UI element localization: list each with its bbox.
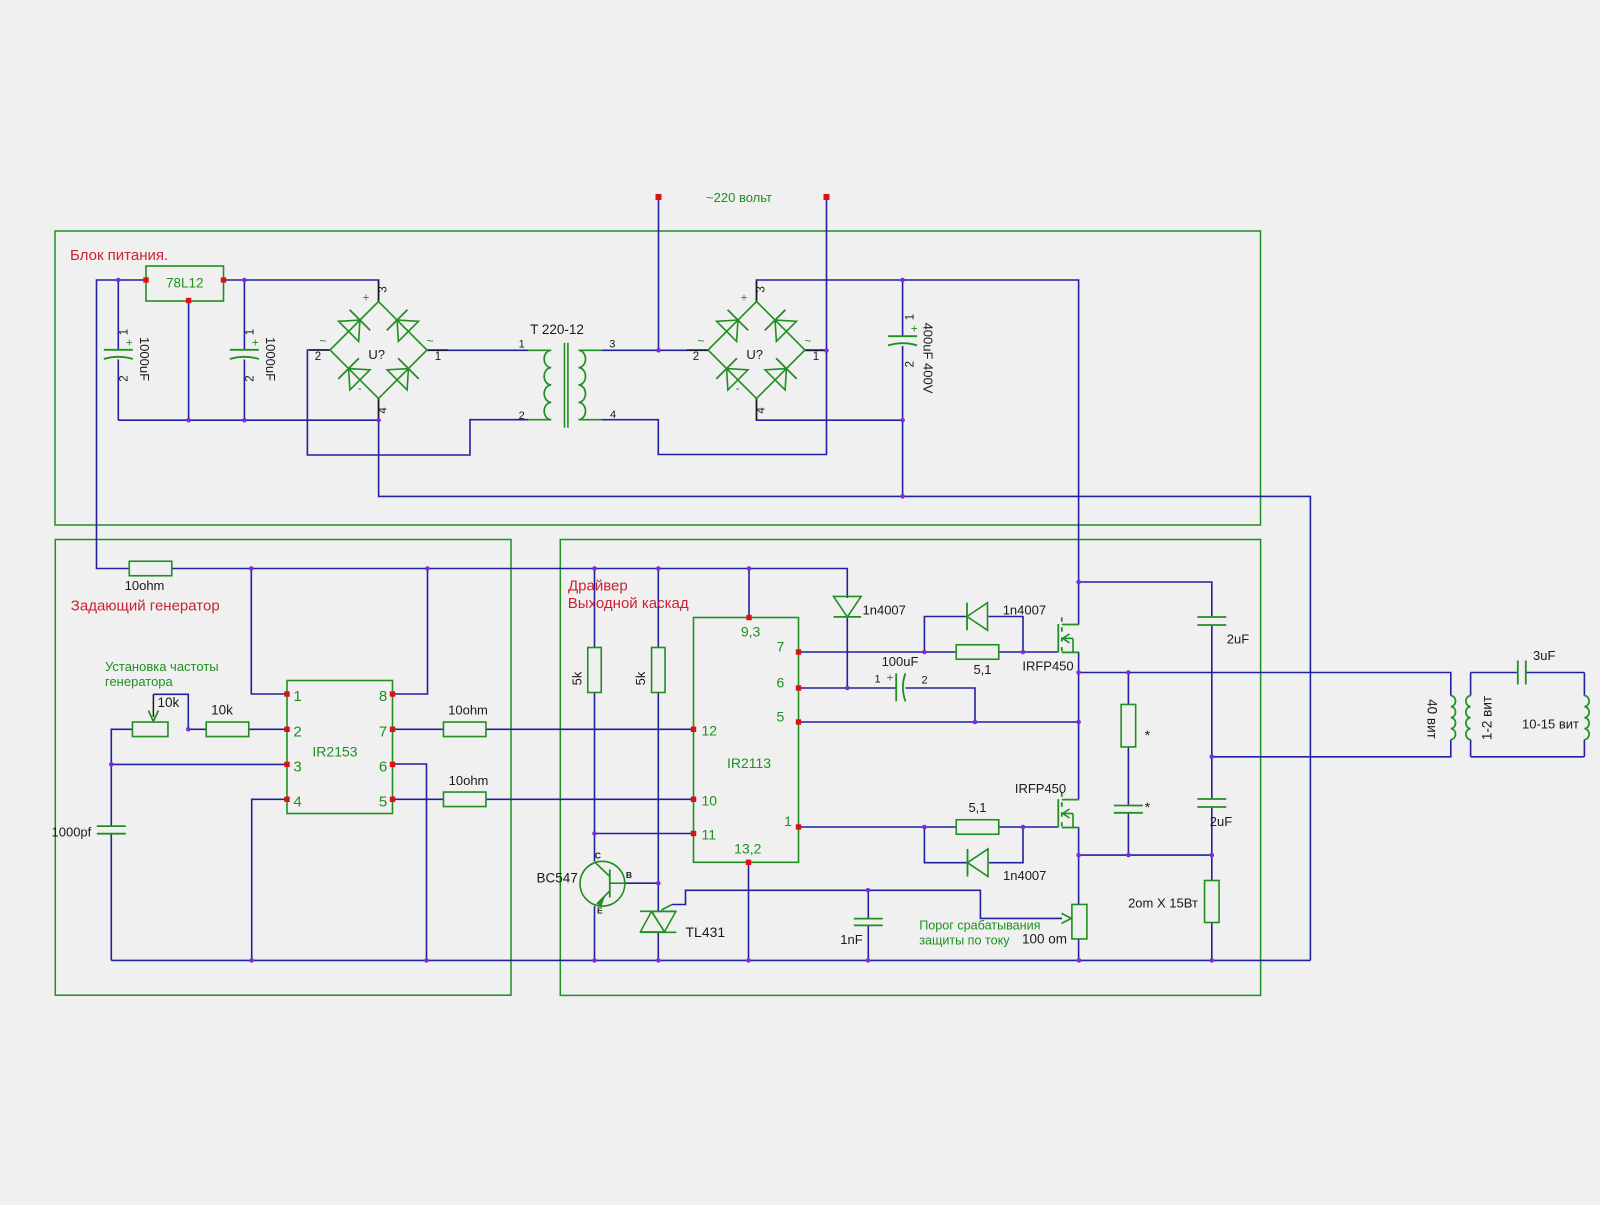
svg-text:2: 2 xyxy=(519,410,525,422)
pin IR2153 pin 4 xyxy=(284,797,289,802)
junction at 251.3,568.5 xyxy=(249,566,254,571)
junction at 924.4,827 xyxy=(922,825,927,830)
svg-text:7: 7 xyxy=(379,723,387,740)
junction at 111.3,764.4 xyxy=(109,762,114,767)
junction at 244.4,280 xyxy=(242,278,247,283)
junction at 868,960.4 xyxy=(866,958,871,963)
wire bridge2 pin1 stub xyxy=(805,350,827,352)
svg-text:генератора: генератора xyxy=(105,674,174,689)
IC U4 IR2113 xyxy=(694,618,799,863)
pin IR2113 pin 7 xyxy=(796,649,801,654)
svg-text:Драйвер: Драйвер xyxy=(568,578,628,595)
wire IR2113 top pin to vcc xyxy=(748,569,750,618)
junction at 1078.6,672.5 xyxy=(1076,670,1081,675)
junction at 1211.8,855.1 xyxy=(1210,853,1215,858)
pin IR2153 pin 2 xyxy=(284,727,289,732)
junction at 749,568.5 xyxy=(747,566,752,571)
shunt regulator TL431 xyxy=(640,910,676,912)
svg-text:10ohm: 10ohm xyxy=(449,773,489,788)
pin IR2153 pin 7 xyxy=(390,727,395,732)
svg-text:40 вит: 40 вит xyxy=(1425,699,1440,739)
svg-text:7: 7 xyxy=(777,638,785,654)
svg-text:8: 8 xyxy=(379,688,387,705)
wire bridge1 pin1 to transformer pin1 xyxy=(428,349,529,351)
wire R 10k to IR2153 pin2 xyxy=(249,728,288,730)
inductor L2 1-2 turns xyxy=(1466,696,1471,740)
pin IR2153 pin 1 xyxy=(284,691,289,696)
capacitor C2 1000uF xyxy=(230,349,259,351)
svg-text:-: - xyxy=(358,381,362,395)
wire cap C2 leads xyxy=(243,280,245,350)
wire vcc bus xyxy=(172,569,847,599)
junction at 1078.6,855.1 xyxy=(1076,853,1081,858)
svg-text:Выходной каскад: Выходной каскад xyxy=(568,595,689,612)
wire snubber chain xyxy=(1127,673,1129,705)
potentiometer RP2 100om xyxy=(1072,904,1087,939)
svg-text:U?: U? xyxy=(746,347,763,362)
svg-text:T 220-12: T 220-12 xyxy=(530,322,584,337)
wire IR2153 pin4 xyxy=(252,799,287,960)
svg-text:+: + xyxy=(362,290,369,304)
svg-text:IR2153: IR2153 xyxy=(312,743,357,759)
wire IR2113 bottom pin to ground xyxy=(748,862,750,960)
transistor Q3 IRFP450 low xyxy=(1057,799,1059,827)
svg-text:3: 3 xyxy=(293,759,301,776)
resistor R4 10ohm gate low xyxy=(443,792,486,807)
svg-text:Задающий генератор: Задающий генератор xyxy=(71,598,220,615)
wire 10ohm to IR2113 pin12 xyxy=(487,728,694,730)
svg-text:1: 1 xyxy=(519,339,525,351)
svg-text:2uF: 2uF xyxy=(1227,632,1249,647)
pin IR2113 pin 10 xyxy=(691,797,696,802)
capacitor C7 2uF bottom xyxy=(1197,798,1226,800)
junction at 426.5,960.4 xyxy=(424,958,429,963)
diode D2 1n4007 xyxy=(967,603,988,631)
wire IR2113 pin5 row to half bridge xyxy=(799,721,1079,723)
pin IR2153 pin 6 xyxy=(390,762,395,767)
svg-text:3: 3 xyxy=(377,286,389,292)
resistor R7 5.1 high xyxy=(956,645,999,660)
resistor R5 5k xyxy=(588,648,602,693)
svg-text:1-2 вит: 1-2 вит xyxy=(1480,696,1495,740)
svg-text:400uF 400V: 400uF 400V xyxy=(920,323,935,394)
driver/output block frame xyxy=(560,540,1260,996)
wire 1000pf leads xyxy=(110,764,112,825)
junction at 244.4,420.2 xyxy=(242,418,247,423)
svg-text:U?: U? xyxy=(368,347,385,362)
junction at 902.6,280 xyxy=(900,278,905,283)
junction at 378.6,420.2 xyxy=(376,418,381,423)
junction at 658.5,350.3 xyxy=(656,348,661,353)
wire bridge1 pin4 minus rail xyxy=(379,399,1311,961)
junction at 594.5,568.5 xyxy=(592,566,597,571)
svg-text:-: - xyxy=(736,381,740,395)
wire 12V gnd rail xyxy=(118,419,378,421)
junction at 118.3,280 xyxy=(116,278,121,283)
node ~220V left terminal xyxy=(656,194,662,200)
junction at 1128.4,855.1 xyxy=(1126,853,1131,858)
voltage regulator 78L12 xyxy=(146,266,224,301)
transistor Q2 IRFP450 high xyxy=(1057,624,1059,652)
svg-text:5: 5 xyxy=(379,793,387,810)
inductor L3 work coil 10-15 turns xyxy=(1584,696,1589,740)
svg-text:C: C xyxy=(595,851,601,861)
svg-text:2: 2 xyxy=(119,375,131,381)
junction at 1211.8,960.4 xyxy=(1210,958,1215,963)
pin IR2153 pin 3 xyxy=(284,762,289,767)
pin 78L12 input xyxy=(143,277,148,282)
wire IR2113 pin7 gate row upper xyxy=(799,651,957,653)
wire top rail to 2uF xyxy=(1079,582,1212,616)
wire TL431 cathode xyxy=(657,883,659,911)
wire ~220V left vertical xyxy=(658,200,660,350)
svg-text:TL431: TL431 xyxy=(686,924,726,940)
svg-text:6: 6 xyxy=(379,759,387,776)
svg-text:5,1: 5,1 xyxy=(973,662,991,677)
svg-text:1n4007: 1n4007 xyxy=(1003,603,1046,618)
svg-text:11: 11 xyxy=(702,827,717,843)
wire bridge1 pin2 to transformer pin2 xyxy=(307,350,528,455)
svg-text:2: 2 xyxy=(921,675,927,687)
wire transformer pin3 to bridge2 pin2 xyxy=(602,349,708,351)
pin IR2113 top pin 9,3 xyxy=(746,615,751,620)
svg-text:2uF: 2uF xyxy=(1210,814,1232,829)
svg-text:1: 1 xyxy=(119,329,131,335)
bridge rectifier U2 mains xyxy=(756,281,758,302)
resistor R8 5.1 low xyxy=(956,820,999,835)
wire IR2113 pin6 row to 100uF xyxy=(799,687,897,689)
wire 10ohm to IR2113 pin10 xyxy=(487,798,694,800)
capacitor C1 1000uF xyxy=(104,349,133,351)
svg-text:3: 3 xyxy=(609,339,615,351)
svg-text:Блок питания.: Блок питания. xyxy=(70,247,168,264)
svg-text:*: * xyxy=(1145,799,1151,815)
diode D1 1n4007 xyxy=(834,596,862,617)
junction at 594.5,833.5 xyxy=(592,831,597,836)
pin IR2153 pin 8 xyxy=(390,691,395,696)
junction at 975,722 xyxy=(973,720,978,725)
svg-text:1: 1 xyxy=(784,813,792,829)
oscillator block frame xyxy=(55,540,511,996)
svg-text:1n4007: 1n4007 xyxy=(863,603,906,618)
svg-text:3uF: 3uF xyxy=(1533,648,1555,663)
svg-text:4: 4 xyxy=(293,793,301,810)
svg-text:+: + xyxy=(911,321,918,335)
power supply block frame xyxy=(55,231,1261,525)
junction at 1023,827 xyxy=(1021,825,1026,830)
wire output bus to primary coil xyxy=(1079,673,1451,696)
junction at 1079,960.4 xyxy=(1077,958,1082,963)
wire pot left lead xyxy=(111,729,132,764)
svg-text:9,3: 9,3 xyxy=(741,624,761,640)
bridge rectifier U1 12V xyxy=(378,281,380,302)
svg-text:1nF: 1nF xyxy=(840,932,862,947)
svg-text:1: 1 xyxy=(435,351,441,363)
diode D3 1n4007 xyxy=(968,849,989,877)
wire 100uF to pin5 row xyxy=(906,688,976,722)
capacitor C9 1nF xyxy=(854,918,883,920)
svg-text:2: 2 xyxy=(315,351,321,363)
svg-text:78L12: 78L12 xyxy=(166,276,204,291)
junction at 658.3,960.4 xyxy=(656,958,661,963)
svg-text:5k: 5k xyxy=(570,671,585,685)
junction at 594.5,960.4 xyxy=(592,958,597,963)
wire 400uF leads xyxy=(902,280,904,336)
svg-text:~: ~ xyxy=(319,334,326,348)
wire 2uF-1 to mid xyxy=(1211,626,1213,798)
svg-text:10ohm: 10ohm xyxy=(125,578,165,593)
svg-text:~: ~ xyxy=(697,334,704,348)
wire D2 bypass branch upper xyxy=(924,617,966,653)
wire primary coil bottom return xyxy=(1212,740,1451,757)
pin IR2113 bottom pin 13,2 xyxy=(746,860,751,865)
svg-text:~220 вольт: ~220 вольт xyxy=(706,190,772,205)
wire pot bracket xyxy=(153,694,188,729)
junction at 826.5,350.5 xyxy=(824,348,829,353)
pin IR2113 pin 1 xyxy=(796,824,801,829)
svg-text:1: 1 xyxy=(874,674,880,686)
svg-text:13,2: 13,2 xyxy=(734,841,761,857)
svg-text:5,1: 5,1 xyxy=(968,800,986,815)
transistor Q1 BC547 xyxy=(580,861,625,906)
junction at 924.4,652 xyxy=(922,650,927,655)
capacitor C4 1000pf xyxy=(97,825,126,827)
wire TL431 anode xyxy=(657,932,659,960)
svg-text:4: 4 xyxy=(377,407,389,414)
junction at 1078.6,722 xyxy=(1076,720,1081,725)
capacitor C3 400uF 400V xyxy=(888,335,917,337)
junction at 902.6,420.2 xyxy=(900,418,905,423)
svg-text:IRFP450: IRFP450 xyxy=(1015,781,1066,796)
pin 78L12 gnd xyxy=(186,298,191,303)
wire ground bus xyxy=(111,959,1310,961)
resistor R2 10k xyxy=(206,722,249,737)
wire D3 bypass branch lower xyxy=(924,827,967,863)
resistor R9 snubber * xyxy=(1121,704,1136,747)
resistor R10 2om 15W xyxy=(1205,881,1220,923)
svg-text:IRFP450: IRFP450 xyxy=(1022,659,1073,674)
IC U3 IR2153 xyxy=(287,681,393,814)
wire mid bus 855 xyxy=(1079,854,1212,856)
junction at 902.6,496.4 xyxy=(900,494,905,499)
svg-text:1000uF: 1000uF xyxy=(263,337,278,381)
svg-text:E: E xyxy=(597,906,603,916)
junction at 188.3,729.3 xyxy=(186,727,191,732)
svg-text:BC547: BC547 xyxy=(537,871,578,886)
capacitor C10 3uF xyxy=(1517,661,1519,685)
svg-text:5: 5 xyxy=(777,708,785,724)
wire 78L12 input from rail xyxy=(97,280,147,569)
wire 2uF-2 bottom xyxy=(1211,807,1213,881)
junction at 1211.8,756.8 xyxy=(1210,755,1215,760)
svg-text:2: 2 xyxy=(245,375,257,381)
wire BC547 base xyxy=(625,882,658,884)
resistor R3 10ohm gate high xyxy=(443,722,486,737)
svg-text:1: 1 xyxy=(293,688,301,705)
capacitor C5 100uF xyxy=(895,673,897,701)
wire 1nF leads xyxy=(867,890,869,918)
svg-text:10-15 вит: 10-15 вит xyxy=(1522,717,1579,732)
pin IR2113 pin 6 xyxy=(796,685,801,690)
wire IR2153 pin5 to gate resistor xyxy=(393,798,445,800)
transformer T1 220-12 xyxy=(528,349,551,351)
junction at 1078.6,582 xyxy=(1076,580,1081,585)
wire IR2153 pin6 to ground xyxy=(393,764,427,960)
svg-text:1000pf: 1000pf xyxy=(52,825,92,840)
svg-text:1: 1 xyxy=(905,314,917,320)
pin IR2153 pin 5 xyxy=(390,797,395,802)
junction at 427.5,568.5 xyxy=(425,566,430,571)
junction at 1128.4,672.5 xyxy=(1126,670,1131,675)
svg-text:Установка частоты: Установка частоты xyxy=(105,659,219,674)
svg-text:2: 2 xyxy=(905,361,917,367)
svg-text:10k: 10k xyxy=(211,703,233,718)
svg-text:3: 3 xyxy=(755,286,767,292)
svg-text:1: 1 xyxy=(245,329,257,335)
wire secondary loop top xyxy=(1471,672,1518,674)
wire half-bridge vertical xyxy=(1078,582,1080,625)
wire BC547 emitter xyxy=(594,906,596,960)
svg-text:12: 12 xyxy=(702,722,718,738)
svg-text:100 om: 100 om xyxy=(1022,932,1067,947)
svg-text:Порог срабатывания: Порог срабатывания xyxy=(919,919,1040,933)
svg-text:2: 2 xyxy=(293,723,301,740)
svg-text:+: + xyxy=(126,335,133,349)
wire IR2113 pin1 gate row lower xyxy=(799,826,957,828)
wire IR2153 pin1 xyxy=(251,569,287,695)
wire TL431 ref to protection divider xyxy=(672,890,1062,918)
capacitor C6 2uF top xyxy=(1197,616,1226,618)
pin IR2113 pin 11 xyxy=(691,831,696,836)
svg-text:~: ~ xyxy=(804,334,811,348)
wire 5k left resistor vertical xyxy=(594,569,596,648)
svg-text:*: * xyxy=(1145,727,1151,743)
junction at 251.7,960.4 xyxy=(249,958,254,963)
svg-text:6: 6 xyxy=(777,674,785,690)
svg-text:10k: 10k xyxy=(158,695,180,710)
wire IR2153 pin7 to gate resistor xyxy=(393,728,445,730)
svg-text:+: + xyxy=(252,335,259,349)
pin 78L12 output xyxy=(221,277,226,282)
svg-text:защиты по току: защиты по току xyxy=(919,934,1010,948)
svg-text:2om X 15Вт: 2om X 15Вт xyxy=(1128,896,1198,911)
wire IR2113 pin11 row xyxy=(595,833,694,835)
junction at 748.5,960.4 xyxy=(746,958,751,963)
junction at 847.3,688 xyxy=(845,686,850,691)
svg-text:5k: 5k xyxy=(633,671,648,685)
resistor R6 5k xyxy=(652,648,666,693)
svg-text:1n4007: 1n4007 xyxy=(1003,868,1046,883)
svg-text:+: + xyxy=(740,290,747,304)
svg-text:4: 4 xyxy=(755,407,767,414)
junction at 658.3,883.2 xyxy=(656,881,661,886)
capacitor C8 snubber * xyxy=(1114,805,1143,807)
svg-text:IR2113: IR2113 xyxy=(727,755,771,771)
wire bridge2 pin4 to cap xyxy=(757,399,903,421)
svg-text:100uF: 100uF xyxy=(882,654,919,669)
svg-text:1: 1 xyxy=(813,351,819,363)
wire cap C1 leads xyxy=(117,280,119,350)
pin IR2113 pin 12 xyxy=(691,727,696,732)
pin IR2113 pin 5 xyxy=(796,719,801,724)
junction at 188.6,420.2 xyxy=(186,418,191,423)
wire bridge2 pin3 plus rail xyxy=(757,280,1079,582)
wire 78L12 output to bridge xyxy=(224,280,379,302)
svg-text:10ohm: 10ohm xyxy=(448,702,488,717)
wire 78L12 gnd pin xyxy=(188,301,190,420)
svg-text:~: ~ xyxy=(426,334,433,348)
wire ~220V right vertical to detour xyxy=(602,200,827,455)
inductor L1 40 turns primary xyxy=(1451,696,1456,740)
resistor R1 10ohm vcc xyxy=(129,561,172,576)
wire secondary loop verticals xyxy=(1470,673,1472,696)
svg-text:10: 10 xyxy=(702,792,718,808)
wire 5k right resistor vertical xyxy=(657,569,659,648)
wire pot to R 10k xyxy=(188,728,206,730)
svg-text:2: 2 xyxy=(693,351,699,363)
svg-text:4: 4 xyxy=(610,409,616,421)
potentiometer RP1 10k xyxy=(132,722,168,737)
junction at 1023,652 xyxy=(1021,650,1026,655)
wire IR2153 pin8 to vcc xyxy=(393,569,428,695)
wire 1n4007 D1 bottom lead xyxy=(846,618,848,688)
svg-text:B: B xyxy=(626,870,632,880)
svg-text:1000uF: 1000uF xyxy=(137,337,152,381)
node ~220V right terminal xyxy=(824,194,830,200)
wire IR2153 pin3 row xyxy=(111,763,287,765)
junction at 658.3,568.5 xyxy=(656,566,661,571)
junction at 868,890.3 xyxy=(866,888,871,893)
wire 2om to ground xyxy=(1211,923,1213,961)
svg-text:+: + xyxy=(886,671,893,685)
wire secondary loop bottom xyxy=(1471,756,1585,758)
